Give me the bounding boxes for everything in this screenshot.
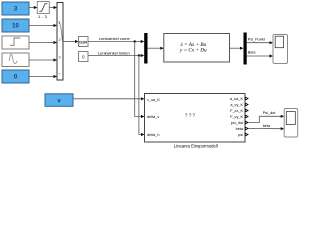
wire demux out1 to scope1: [247, 41, 273, 44]
wire 10 to switch port 1: [29, 24, 57, 27]
svg-text:1 .. 3: 1 .. 3: [38, 14, 48, 19]
step source block: [2, 36, 29, 49]
wire demux out2 to scope1: [247, 54, 273, 57]
wire state-space to demux: [230, 47, 244, 50]
scope SC1: [273, 35, 288, 64]
svg-text:beta: beta: [263, 124, 271, 128]
wire switch output to D2R: [63, 40, 79, 43]
node junction hinten: [138, 54, 140, 56]
wire beta to scope2: [248, 127, 284, 130]
svg-text:F_cy_K: F_cy_K: [230, 115, 243, 119]
svg-text:3: 3: [59, 56, 61, 60]
scope SC2: [284, 109, 298, 138]
node junction vorne: [134, 40, 136, 42]
svg-text:Psi_Punkt: Psi_Punkt: [248, 37, 266, 41]
wire sine to switch port 3: [29, 58, 57, 61]
svg-text:psi: psi: [238, 133, 243, 137]
wire 0 to switch port *: [29, 75, 57, 78]
svg-text:1: 1: [59, 21, 61, 25]
saturation block: [37, 2, 49, 14]
wire hinten branch down to delta_h: [139, 56, 145, 137]
wire D2R to mux (vorne): [88, 40, 144, 43]
svg-text:a_ua_K: a_ua_K: [230, 97, 244, 101]
svg-text:2: 2: [59, 38, 61, 42]
constant block v: [45, 94, 73, 107]
wire psi_dot to scope2: [248, 115, 284, 123]
constant block 0 (hinten): [79, 52, 89, 62]
wire 3 to saturation: [29, 6, 37, 9]
svg-text:y = Cx + Du: y = Cx + Du: [179, 48, 207, 54]
wire 0 to mux (hinten): [88, 54, 144, 57]
wire v to big block input 1: [73, 97, 145, 100]
D2R gain block: [79, 37, 89, 47]
wire saturation to switch control: [49, 6, 57, 9]
constant block C1 value 3: [2, 2, 29, 15]
svg-text:Psi_dot: Psi_dot: [263, 111, 277, 115]
big block output port arrows: [245, 97, 248, 136]
svg-text:D2R: D2R: [79, 39, 87, 44]
wire mux to state-space: [148, 47, 164, 50]
constant block C3 value 0: [2, 70, 29, 83]
svg-text:v_ua_K: v_ua_K: [147, 98, 160, 102]
svg-text:Lenkwinkel hinten: Lenkwinkel hinten: [98, 50, 130, 55]
svg-text:10: 10: [12, 24, 19, 30]
mux M1: [144, 33, 147, 64]
svg-text:Beta: Beta: [248, 51, 257, 55]
sine wave source block: [2, 53, 29, 67]
svg-text:Lineares Einspurmodell: Lineares Einspurmodell: [174, 143, 218, 148]
svg-text:delta_v: delta_v: [147, 115, 159, 119]
svg-text:F_cx_K: F_cx_K: [230, 109, 243, 113]
constant block C2 value 10: [2, 19, 29, 32]
demux D1: [244, 33, 247, 65]
wire vorne branch down to delta_v: [135, 42, 145, 119]
svg-text:a_cy_K: a_cy_K: [230, 103, 243, 107]
multiport switch U1: [57, 3, 63, 81]
svg-text:psi_dot: psi_dot: [231, 121, 244, 125]
svg-text:? ? ?: ? ? ?: [185, 113, 196, 118]
svg-text:beta: beta: [236, 127, 244, 131]
svg-text:Lenkwinkel vorne: Lenkwinkel vorne: [99, 36, 131, 41]
wire step to switch port 2: [29, 41, 57, 44]
state-space block U2: [164, 34, 230, 63]
svg-text:delta_h: delta_h: [147, 133, 159, 137]
subsystem Lineares Einspurmodell: [145, 94, 246, 143]
